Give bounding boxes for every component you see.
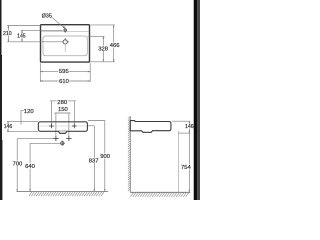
svg-text:146: 146 (4, 124, 13, 130)
svg-text:754: 754 (181, 165, 192, 171)
svg-text:328: 328 (98, 47, 109, 53)
svg-text:210: 210 (3, 31, 12, 37)
svg-text:700: 700 (13, 162, 24, 168)
svg-text:640: 640 (25, 164, 36, 170)
svg-text:280: 280 (57, 100, 68, 106)
svg-text:146: 146 (185, 124, 194, 130)
svg-text:595: 595 (59, 69, 70, 75)
svg-text:610: 610 (59, 79, 70, 85)
svg-text:120: 120 (24, 109, 35, 115)
svg-text:837: 837 (89, 159, 99, 165)
svg-text:145: 145 (17, 33, 26, 39)
svg-text:900: 900 (100, 154, 111, 160)
svg-text:466: 466 (110, 43, 121, 49)
svg-text:Ø35: Ø35 (42, 13, 52, 19)
svg-text:150: 150 (58, 107, 69, 113)
